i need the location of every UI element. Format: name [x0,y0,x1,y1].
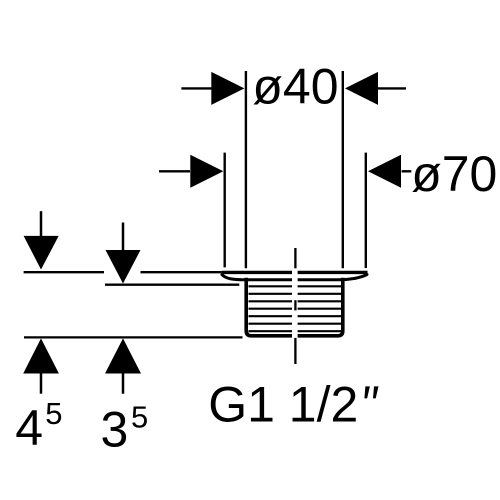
svg-text:4: 4 [15,400,43,456]
svg-text:ø40: ø40 [252,58,338,114]
dimension 4.5 down arrow [24,211,59,269]
reference line top surface (4.5) [24,271,222,273]
thread line 5 [249,315,342,317]
inch mark stroke 1 [364,386,370,398]
extension line ø70 right [365,153,367,268]
ø40 dimension arrow right [345,72,406,105]
ø40 dimension arrow left [181,72,244,105]
centerline short dash [294,300,296,310]
inch mark stroke 2 [373,386,379,398]
thread line 7 [249,330,342,332]
fitting flange underside with end bevels [222,275,367,280]
reference line bottom [24,336,243,338]
centerline segment below part [294,338,296,364]
extension line ø40 left [245,71,247,268]
dimension 4.5 up arrow [23,338,59,393]
reference line flange underside (3.5) [105,284,239,286]
extension line ø40 right [342,71,344,268]
svg-text:3: 3 [101,401,129,457]
thread line 1 [249,285,342,287]
svg-text:5: 5 [131,400,148,435]
ø70 dimension arrow left [159,155,223,188]
fitting flange top edge [222,271,368,274]
fitting threaded body outline [246,278,343,336]
svg-text:ø70: ø70 [411,146,497,202]
dimension 3.5 down arrow [106,223,141,284]
extension line ø70 left [223,153,225,268]
svg-text:G1 1/2: G1 1/2 [208,377,358,433]
dimension 3.5 up arrow [105,338,141,393]
thread line 6 [249,323,342,325]
centerline segment above part [294,248,296,268]
thread line 4 [249,308,342,310]
thread line 3 [249,300,342,302]
ø70 dimension arrow right [368,155,411,188]
centerline white halo [292,264,298,341]
svg-text:5: 5 [45,396,62,431]
thread line 2 [249,293,342,295]
